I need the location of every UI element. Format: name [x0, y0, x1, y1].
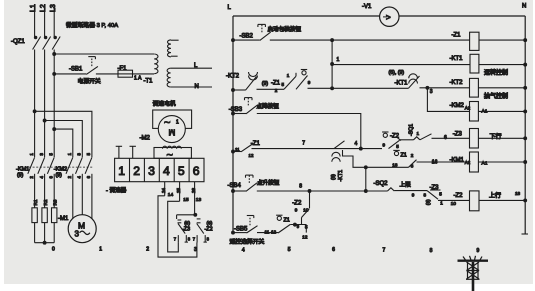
svg-text:25: 25 — [176, 188, 181, 193]
node junction SB4-a — [308, 190, 311, 193]
svg-text:6: 6 — [332, 247, 335, 253]
svg-text:11: 11 — [235, 147, 240, 152]
svg-text:A2: A2 — [465, 106, 471, 111]
node N rail label — [522, 4, 526, 10]
wire KM1 feeder — [364, 166, 408, 169]
terminal block outline — [115, 158, 204, 181]
wire rung A left — [233, 39, 260, 41]
svg-text:5: 5 — [439, 191, 442, 196]
svg-text:N: N — [195, 84, 199, 90]
svg-text:1: 1 — [337, 57, 340, 63]
svg-text:N: N — [522, 4, 526, 10]
svg-text:-SQ1: -SQ1 — [409, 124, 415, 136]
node column 5 — [288, 247, 291, 253]
wire Z2 coil to N — [479, 191, 527, 202]
wire phase L3 upper — [53, 5, 55, 37]
svg-text:1: 1 — [118, 164, 125, 178]
svg-text:(6): (6) — [207, 220, 213, 226]
svg-text:启动包装按钮: 启动包装按钮 — [268, 25, 302, 33]
wire Z3 coil to N — [478, 137, 526, 140]
svg-text:-Z1: -Z1 — [452, 32, 462, 38]
wire SB4 stub — [233, 190, 246, 192]
wire rung B — [332, 64, 470, 66]
motor M2 frame — [153, 110, 192, 128]
contactor KM1 pole 1 — [28, 153, 35, 179]
label jog down button — [257, 102, 280, 110]
wire rung C slash 2 — [296, 76, 308, 90]
wire tap3 to KM2 — [54, 129, 73, 157]
wire rung C b — [308, 87, 409, 89]
svg-text:~: ~ — [164, 117, 170, 129]
button SB5 — [234, 216, 258, 234]
wire KT1-8 step — [343, 150, 366, 167]
node column 0 — [52, 247, 55, 253]
wire F1 to transformer primary bottom — [133, 73, 155, 75]
svg-text:12: 12 — [271, 229, 277, 234]
node rail joint SB3 — [232, 112, 235, 115]
svg-text:~: ~ — [167, 150, 173, 162]
svg-text:5: 5 — [86, 152, 91, 155]
wire SB3 to node4 — [257, 114, 361, 149]
terminal 6 stub down — [191, 182, 196, 216]
node tap KM2 pole2 — [43, 119, 46, 122]
terminal 2 — [133, 164, 140, 178]
node L rail label — [228, 5, 232, 11]
wire SQ2 to Z3 contact — [394, 191, 427, 198]
contact Z1 (7) — [392, 150, 416, 168]
svg-text:运转控制: 运转控制 — [484, 69, 508, 77]
resistor R3 — [52, 199, 58, 222]
contactor KM2 label — [54, 167, 67, 179]
contactor coil KM1 — [450, 152, 488, 172]
svg-text:-SB1: -SB1 — [69, 67, 83, 73]
svg-text:点升按钮: 点升按钮 — [257, 179, 280, 187]
wire secondary N — [171, 84, 212, 90]
resistor R2 — [42, 199, 48, 222]
svg-text:5: 5 — [49, 153, 54, 156]
svg-text:6: 6 — [193, 164, 200, 178]
svg-text:5: 5 — [288, 247, 291, 253]
svg-text:3: 3 — [75, 230, 80, 239]
breaker QZ1 pole 3 — [52, 36, 60, 49]
svg-text:1: 1 — [67, 152, 72, 155]
svg-text:Z1: Z1 — [401, 153, 407, 159]
svg-text:13: 13 — [196, 197, 202, 203]
svg-text:抽气控制: 抽气控制 — [484, 92, 508, 100]
wire SB5 to Z1 contact — [257, 229, 278, 234]
svg-text:下行: 下行 — [490, 133, 502, 141]
wire KT1 coil to N — [479, 63, 527, 66]
wire phase L1 upper — [34, 5, 36, 37]
svg-text:2: 2 — [29, 176, 34, 179]
svg-text:1: 1 — [287, 73, 290, 78]
breaker QZ1 label — [11, 39, 25, 45]
transformer T1 label — [144, 79, 154, 85]
label jog up button — [257, 179, 280, 187]
svg-text:-Z2: -Z2 — [454, 193, 464, 199]
limit switch SQ2 — [374, 181, 395, 191]
wire Z1 coil to N — [479, 39, 527, 42]
wire 7 — [252, 141, 383, 149]
svg-text:-Z3: -Z3 — [182, 227, 190, 233]
wire secondary L — [171, 63, 212, 69]
svg-text:-KT1: -KT1 — [450, 56, 464, 62]
resistor R1 — [32, 199, 38, 222]
svg-text:9: 9 — [477, 248, 480, 254]
switch SB1 — [69, 57, 98, 75]
svg-text:10: 10 — [451, 201, 457, 206]
speed controller choke winding — [163, 146, 182, 149]
svg-text:-V1: -V1 — [362, 4, 372, 10]
node tap T1 primary top — [53, 53, 56, 56]
node column 3 — [194, 247, 197, 253]
timer coil KT1 — [450, 54, 479, 73]
svg-text:L3: L3 — [50, 4, 57, 12]
contactor coil KM2 — [450, 102, 488, 122]
breaker QZ1 pole 2 — [43, 36, 51, 49]
wire vertical feed 1 — [331, 40, 333, 88]
node junction SB4-b — [364, 190, 367, 193]
linkage dashed KM1-KM2 — [29, 166, 93, 168]
contact Z2 NO vertical — [292, 201, 309, 225]
transformer T1 secondary winding 2 — [167, 68, 170, 87]
svg-text:8: 8 — [207, 237, 210, 242]
wire SB5 rung — [233, 232, 247, 234]
svg-text:18: 18 — [515, 191, 521, 196]
svg-text:8: 8 — [299, 184, 302, 190]
node 15 — [183, 197, 189, 203]
svg-text:R3: R3 — [53, 199, 58, 205]
svg-text:L1: L1 — [30, 4, 37, 12]
svg-text:7: 7 — [383, 248, 386, 254]
node column 9 — [477, 248, 480, 254]
label power switch — [78, 77, 101, 85]
node tap SB1 — [53, 73, 56, 76]
label remote selector switch — [230, 238, 265, 246]
svg-text:26: 26 — [191, 188, 196, 193]
svg-text:5: 5 — [282, 82, 285, 87]
motor M1 — [68, 215, 96, 243]
svg-text:1: 1 — [417, 131, 420, 136]
wire L2 below KM1 — [44, 174, 46, 208]
relay coil Z3 — [453, 129, 479, 149]
svg-text:4: 4 — [39, 176, 44, 179]
svg-text:1: 1 — [176, 120, 179, 126]
svg-text:Z1: Z1 — [284, 217, 290, 223]
wire top rail — [233, 15, 525, 17]
svg-text:-F1: -F1 — [118, 66, 128, 72]
label down motion — [490, 133, 502, 141]
svg-text:12: 12 — [249, 153, 254, 158]
label start packing button — [268, 25, 302, 33]
svg-text:2: 2 — [133, 164, 140, 178]
svg-text:点降按钮: 点降按钮 — [257, 102, 280, 110]
svg-text:-Z1: -Z1 — [271, 81, 281, 87]
wire to Z2 coil — [426, 199, 470, 206]
contactor KM2 pole 2 — [76, 153, 83, 179]
fuse F1 — [118, 66, 143, 82]
svg-text:7: 7 — [302, 141, 305, 147]
wire phase L3 middle — [53, 50, 55, 158]
wire phase L2 middle — [44, 50, 46, 158]
limit switch SQ1 — [409, 124, 420, 140]
wire junction to Z3 contact — [177, 214, 196, 216]
button SB3 — [229, 98, 257, 114]
svg-text:调速电机: 调速电机 — [153, 100, 176, 108]
svg-text:(6): (6) — [184, 220, 190, 226]
node rail joint Z1c — [232, 150, 235, 153]
node junction rung C — [331, 87, 334, 90]
svg-text:(9): (9) — [56, 173, 63, 179]
svg-text:上限: 上限 — [400, 180, 412, 188]
node rail joint C — [232, 89, 235, 92]
node column 8 — [430, 248, 433, 254]
svg-text:6: 6 — [86, 175, 91, 178]
node tap KM2 pole1 — [33, 110, 36, 113]
button SB2 — [240, 24, 271, 40]
contactor KM1 pole 3 — [47, 153, 54, 179]
svg-text:-QZ1: -QZ1 — [11, 39, 25, 45]
contact Z3 plug — [174, 215, 191, 243]
wire KM2 pole2 to motor — [81, 174, 83, 215]
terminal 1 input stub — [116, 146, 122, 158]
wire 16 to KM1 — [417, 159, 470, 165]
svg-text:7: 7 — [193, 237, 196, 242]
svg-text:-Z1: -Z1 — [251, 141, 261, 147]
node L2 — [40, 4, 47, 12]
svg-text:4: 4 — [242, 248, 245, 254]
svg-text:9: 9 — [295, 208, 298, 213]
label up motion — [489, 192, 501, 200]
svg-text:R2: R2 — [43, 199, 48, 205]
wire rung C a — [257, 88, 285, 90]
node column 6 — [332, 247, 335, 253]
svg-text:1 A: 1 A — [134, 76, 142, 82]
node rail joint SB4 — [232, 190, 235, 193]
svg-text:-KM1: -KM1 — [450, 158, 465, 164]
contact Z1 changeover (9) — [262, 73, 296, 93]
wire feeder vertical to SB4 rung — [365, 167, 367, 191]
wire SB1 to fuse F1 — [96, 73, 118, 75]
timer contact KT1 (8) vertical — [331, 141, 345, 182]
svg-text:-KM2: -KM2 — [450, 103, 465, 109]
svg-text:4: 4 — [77, 176, 82, 179]
contactor KM2 pole 1 — [66, 152, 73, 178]
svg-text:8: 8 — [411, 164, 414, 169]
svg-text:8: 8 — [424, 192, 427, 197]
terminal 4 stub down — [161, 182, 166, 196]
wire terminal5 loop — [168, 201, 180, 252]
svg-text:3: 3 — [430, 89, 433, 95]
svg-text:8: 8 — [430, 248, 433, 254]
wire R1 tail — [34, 223, 36, 243]
label upper limit — [400, 180, 412, 188]
label breaker rating — [66, 21, 118, 29]
wire y224 link — [290, 222, 308, 240]
node 1 — [331, 57, 340, 65]
terminal 5 stub down — [176, 182, 181, 202]
wire L3 below KM1 — [53, 174, 55, 208]
label M1 — [58, 216, 69, 222]
terminal 5 — [178, 164, 185, 178]
node column 2 — [146, 247, 149, 253]
contact Z1 remote — [276, 215, 290, 233]
button SB4 — [228, 175, 258, 191]
terminal 4 — [163, 164, 170, 178]
svg-text:2: 2 — [275, 88, 278, 93]
svg-text:遥控选择开关: 遥控选择开关 — [230, 238, 265, 246]
wire node3 down — [427, 88, 469, 112]
svg-text:L: L — [228, 5, 232, 11]
label suction control — [484, 92, 508, 100]
svg-text:-SB2: -SB2 — [240, 34, 254, 40]
svg-text:-SB4: -SB4 — [228, 183, 242, 189]
label speed motor — [153, 100, 176, 108]
wire L1 below KM1 — [34, 174, 36, 208]
svg-text:A2: A2 — [465, 160, 471, 165]
wire resistor common — [35, 241, 55, 244]
svg-text:5: 5 — [396, 144, 399, 149]
svg-text:(9): (9) — [262, 81, 269, 87]
svg-text:6: 6 — [444, 135, 447, 141]
wire rung A right — [270, 39, 470, 41]
node column 1 — [99, 247, 102, 253]
svg-text:>: > — [386, 13, 391, 22]
relay coil Z2 — [454, 191, 480, 211]
svg-text:R1: R1 — [33, 199, 38, 205]
terminal 2 input stub — [130, 146, 136, 158]
svg-text:上行: 上行 — [489, 192, 501, 200]
label speed controller — [106, 186, 127, 194]
svg-text:-SB5: -SB5 — [234, 227, 248, 233]
svg-text:(8): (8) — [331, 174, 337, 180]
svg-text:8: 8 — [188, 237, 191, 242]
contactor KM2 pole 3 — [85, 152, 92, 178]
wire 8 rung — [257, 184, 388, 192]
svg-text:A1: A1 — [482, 161, 488, 167]
svg-text:11: 11 — [265, 229, 270, 234]
svg-text:-M2: -M2 — [140, 136, 151, 142]
wire phase L2 upper — [44, 5, 46, 37]
svg-text:2: 2 — [411, 153, 414, 158]
svg-text:-KT2: -KT2 — [450, 80, 464, 86]
contactor KM1 pole 2 — [38, 153, 45, 179]
relay coil Z1 — [452, 32, 480, 50]
svg-text:L2: L2 — [40, 4, 47, 12]
wire KM2 pole1 to motor — [72, 174, 74, 219]
wire KM2 coil to N — [478, 110, 526, 113]
svg-text:-SB3: -SB3 — [229, 107, 243, 113]
wire R3 tail — [53, 223, 55, 243]
meter V1 — [362, 4, 399, 26]
svg-text:4: 4 — [163, 164, 170, 178]
wire KT2 coil to N — [478, 86, 526, 89]
svg-text:M: M — [168, 128, 175, 137]
svg-text:-KT1: -KT1 — [395, 81, 409, 87]
svg-text:4: 4 — [355, 141, 358, 147]
wire rung C stub — [233, 89, 246, 91]
terminal 1 — [118, 164, 125, 178]
svg-text:7: 7 — [174, 237, 177, 242]
wire L3 to SB1 — [54, 73, 86, 75]
svg-text:-M1: -M1 — [58, 216, 69, 222]
wire Z3 rung a — [400, 139, 414, 141]
antenna tower icon — [458, 256, 489, 291]
wire SB3 rung — [233, 113, 246, 115]
terminal dividers — [130, 158, 190, 181]
node L1 — [30, 4, 37, 12]
svg-text:12: 12 — [302, 234, 308, 239]
svg-text:5: 5 — [305, 225, 308, 230]
svg-text:3: 3 — [148, 164, 155, 178]
node 13 — [196, 197, 202, 203]
breaker QZ1 pole 1 — [33, 36, 41, 49]
node tap KM2 pole3 — [53, 128, 56, 131]
svg-text:1: 1 — [440, 201, 443, 206]
svg-text:电源开关: 电源开关 — [78, 77, 101, 85]
svg-text:14: 14 — [168, 192, 174, 198]
svg-text:2: 2 — [146, 247, 149, 253]
wire KM2 pole3 to motor — [91, 174, 93, 219]
svg-text:5: 5 — [178, 164, 185, 178]
node column 7 — [383, 248, 386, 254]
timer contact KT2 — [226, 72, 258, 90]
svg-text:3: 3 — [39, 153, 44, 156]
svg-text:-Z2: -Z2 — [205, 227, 213, 233]
contact Z1 NO — [235, 141, 260, 158]
node junction terminal6 — [194, 213, 197, 216]
svg-text:3: 3 — [194, 247, 197, 253]
svg-text:M: M — [78, 221, 85, 231]
svg-text:3: 3 — [77, 153, 82, 156]
timer coil KT2 — [450, 78, 479, 97]
wire R2 tail — [44, 223, 46, 243]
contactor KM1 label — [16, 167, 29, 179]
terminal 6 — [193, 164, 200, 178]
svg-text:2: 2 — [67, 175, 72, 178]
svg-text:6: 6 — [49, 176, 54, 179]
wire to transformer primary top — [54, 53, 154, 55]
wire KM1 coil to N — [478, 161, 526, 164]
node 4 — [355, 141, 363, 150]
contact Z2 NC flag — [382, 132, 401, 149]
svg-text:-KT1: -KT1 — [338, 170, 344, 182]
node 3 — [426, 86, 433, 95]
svg-text:24: 24 — [161, 188, 166, 193]
wire phase L1 middle — [34, 50, 36, 158]
svg-text:0: 0 — [52, 247, 55, 253]
timer contact KT1 (6),(9) — [389, 70, 420, 88]
svg-text:1: 1 — [99, 247, 102, 253]
wire rung C c — [420, 87, 470, 89]
svg-text:-SQ2: -SQ2 — [374, 181, 389, 187]
svg-text:(6), (9): (6), (9) — [389, 70, 405, 76]
svg-text:-Z3: -Z3 — [453, 132, 463, 138]
svg-text:9: 9 — [412, 192, 415, 197]
contact to Z3 coil — [420, 134, 470, 141]
label running control — [484, 69, 508, 77]
svg-text:9: 9 — [383, 143, 386, 148]
motor M2 — [158, 116, 185, 143]
node column 4 — [242, 248, 245, 254]
svg-text:1: 1 — [29, 153, 34, 156]
svg-text:16: 16 — [432, 159, 438, 165]
wire L rail — [232, 16, 234, 233]
wire tap2 to KM2 — [45, 121, 83, 158]
wire branch Z2 remote — [309, 191, 311, 208]
svg-text:(9): (9) — [17, 173, 24, 179]
node 14 — [168, 192, 174, 198]
